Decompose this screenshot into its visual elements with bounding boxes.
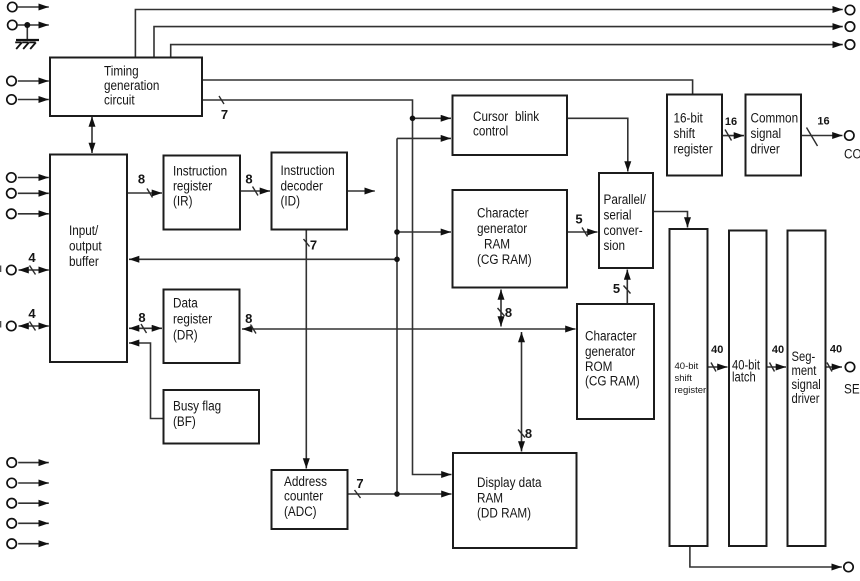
svg-text:Cursor: Cursor — [473, 109, 509, 124]
svg-text:5: 5 — [575, 212, 582, 227]
svg-text:generator: generator — [585, 344, 636, 359]
svg-text:driver: driver — [751, 141, 781, 156]
svg-text:signal: signal — [751, 126, 782, 141]
svg-text:Character: Character — [585, 329, 637, 344]
svg-text:control: control — [473, 124, 508, 139]
svg-text:8: 8 — [525, 426, 532, 441]
svg-text:Address: Address — [284, 474, 327, 489]
svg-text:16: 16 — [817, 116, 829, 128]
svg-text:16-bit: 16-bit — [674, 111, 704, 126]
svg-text:signal: signal — [792, 377, 821, 392]
svg-text:40: 40 — [711, 344, 723, 356]
svg-text:blink: blink — [515, 109, 539, 124]
svg-text:shift: shift — [674, 126, 696, 141]
svg-text:40-bit: 40-bit — [675, 361, 699, 372]
svg-text:(BF): (BF) — [173, 414, 196, 429]
svg-text:Seg-: Seg- — [792, 349, 816, 364]
svg-text:register: register — [173, 312, 213, 327]
svg-text:register: register — [675, 385, 707, 396]
svg-text:(IR): (IR) — [173, 194, 193, 209]
svg-text:16: 16 — [725, 116, 737, 128]
svg-text:8: 8 — [245, 171, 252, 186]
svg-text:register: register — [674, 141, 714, 156]
svg-text:counter: counter — [284, 489, 324, 504]
svg-text:40: 40 — [772, 344, 784, 356]
svg-text:(DR): (DR) — [173, 328, 198, 343]
svg-text:register: register — [173, 179, 213, 194]
svg-text:7: 7 — [310, 238, 317, 253]
svg-text:7: 7 — [356, 476, 363, 491]
svg-text:8: 8 — [138, 310, 145, 325]
svg-text:Common: Common — [751, 111, 799, 126]
svg-text:Display data: Display data — [477, 475, 542, 490]
svg-text:(CG RAM): (CG RAM) — [585, 374, 640, 389]
svg-text:8: 8 — [505, 305, 512, 320]
svg-text:(ID): (ID) — [281, 194, 301, 209]
svg-text:shift: shift — [675, 373, 693, 384]
svg-text:8: 8 — [138, 171, 145, 186]
svg-text:conver-: conver- — [604, 223, 643, 238]
svg-text:Busy flag: Busy flag — [173, 399, 221, 414]
svg-text:ment: ment — [792, 363, 817, 378]
svg-text:driver: driver — [792, 391, 820, 406]
svg-text:output: output — [69, 239, 102, 254]
svg-text:7: 7 — [221, 107, 228, 122]
svg-text:4: 4 — [28, 250, 36, 265]
svg-text:sion: sion — [604, 238, 626, 253]
svg-text:circuit: circuit — [104, 93, 135, 108]
svg-text:decoder: decoder — [281, 179, 324, 194]
svg-text:buffer: buffer — [69, 254, 99, 269]
svg-text:Instruction: Instruction — [281, 163, 335, 178]
svg-text:Instruction: Instruction — [173, 164, 227, 179]
svg-text:Timing: Timing — [104, 64, 139, 79]
svg-text:Parallel/: Parallel/ — [604, 192, 647, 207]
svg-text:4: 4 — [28, 306, 36, 321]
svg-text:40: 40 — [830, 344, 842, 356]
svg-text:RAM: RAM — [477, 491, 503, 506]
svg-text:8: 8 — [245, 311, 252, 326]
svg-text:Character: Character — [477, 206, 529, 221]
svg-text:RAM: RAM — [484, 237, 510, 252]
svg-text:COM: COM — [844, 147, 860, 162]
svg-text:(ADC): (ADC) — [284, 504, 317, 519]
svg-text:Input/: Input/ — [69, 223, 99, 238]
svg-text:generator: generator — [477, 221, 528, 236]
svg-text:serial: serial — [604, 208, 632, 223]
svg-text:ROM: ROM — [585, 359, 612, 374]
svg-text:generation: generation — [104, 78, 159, 93]
svg-text:latch: latch — [732, 370, 756, 385]
svg-text:SEG1: SEG1 — [844, 382, 860, 397]
svg-text:5: 5 — [613, 281, 620, 296]
svg-text:(DD RAM): (DD RAM) — [477, 506, 531, 521]
svg-text:(CG RAM): (CG RAM) — [477, 252, 532, 267]
svg-text:Data: Data — [173, 296, 198, 311]
